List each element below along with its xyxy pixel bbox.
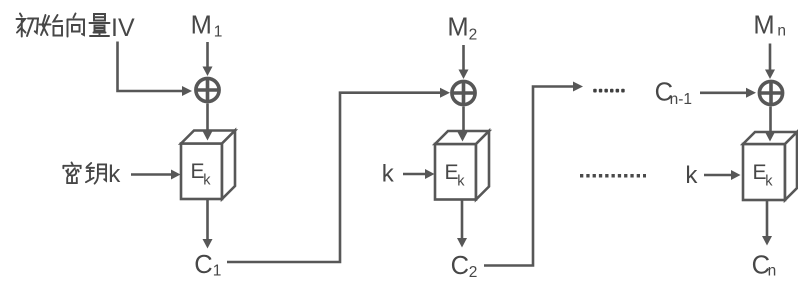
svg-text:n: n — [777, 22, 786, 39]
svg-text:k: k — [108, 161, 121, 188]
svg-text:1: 1 — [213, 263, 222, 280]
arrow key3 to box3 — [704, 174, 732, 177]
向 — [68, 14, 85, 37]
初 — [17, 14, 39, 37]
wire xor1 to box1 — [206, 104, 209, 132]
svg-text:k: k — [382, 161, 395, 188]
svg-text:2: 2 — [469, 26, 478, 43]
xor U2 — [452, 81, 475, 104]
dots ...... — [593, 89, 625, 93]
arrow box3 down — [766, 200, 769, 237]
svg-text:k: k — [457, 173, 465, 189]
钥 — [86, 163, 106, 184]
xor U1 — [196, 78, 219, 101]
wire IV to xor1 — [118, 42, 184, 92]
svg-text:IV: IV — [111, 14, 135, 42]
wire M2 to xor2 — [462, 45, 465, 70]
arrow Cn-1 to xor3 — [700, 92, 747, 95]
wire C2 to right — [484, 87, 574, 266]
svg-text:n-1: n-1 — [670, 91, 692, 108]
svg-text:k: k — [203, 173, 211, 189]
密 — [63, 162, 80, 183]
svg-text:2: 2 — [469, 264, 478, 281]
text 密钥k — [63, 162, 106, 183]
svg-text:1: 1 — [214, 23, 223, 40]
box E_k 2 — [435, 131, 489, 200]
始 — [40, 15, 63, 36]
arrow box1 down — [206, 199, 209, 239]
arrow box2 down — [461, 200, 464, 238]
xor U3 — [759, 81, 782, 104]
text 初始向量IV — [17, 14, 110, 37]
wire xor2 to box2 — [462, 107, 465, 133]
box E_k 1 — [181, 131, 235, 200]
svg-text:n: n — [768, 263, 777, 280]
wire xor3 to box3 — [769, 107, 772, 133]
arrow key1 to box1 — [131, 173, 172, 176]
dotted line middle — [580, 174, 646, 178]
svg-text:M: M — [191, 11, 212, 39]
量 — [90, 14, 110, 36]
arrow key2 to box2 — [403, 173, 426, 176]
wire C1 to xor2 — [227, 93, 441, 262]
svg-text:C: C — [451, 252, 469, 280]
svg-text:M: M — [447, 13, 468, 41]
svg-text:C: C — [194, 251, 212, 279]
svg-text:k: k — [765, 173, 773, 189]
wire Mn to xor3 — [769, 44, 772, 71]
svg-text:k: k — [685, 162, 698, 189]
box E_k 3 — [743, 132, 797, 200]
wire M1 to xor1 — [206, 42, 209, 67]
svg-text:M: M — [753, 11, 774, 39]
